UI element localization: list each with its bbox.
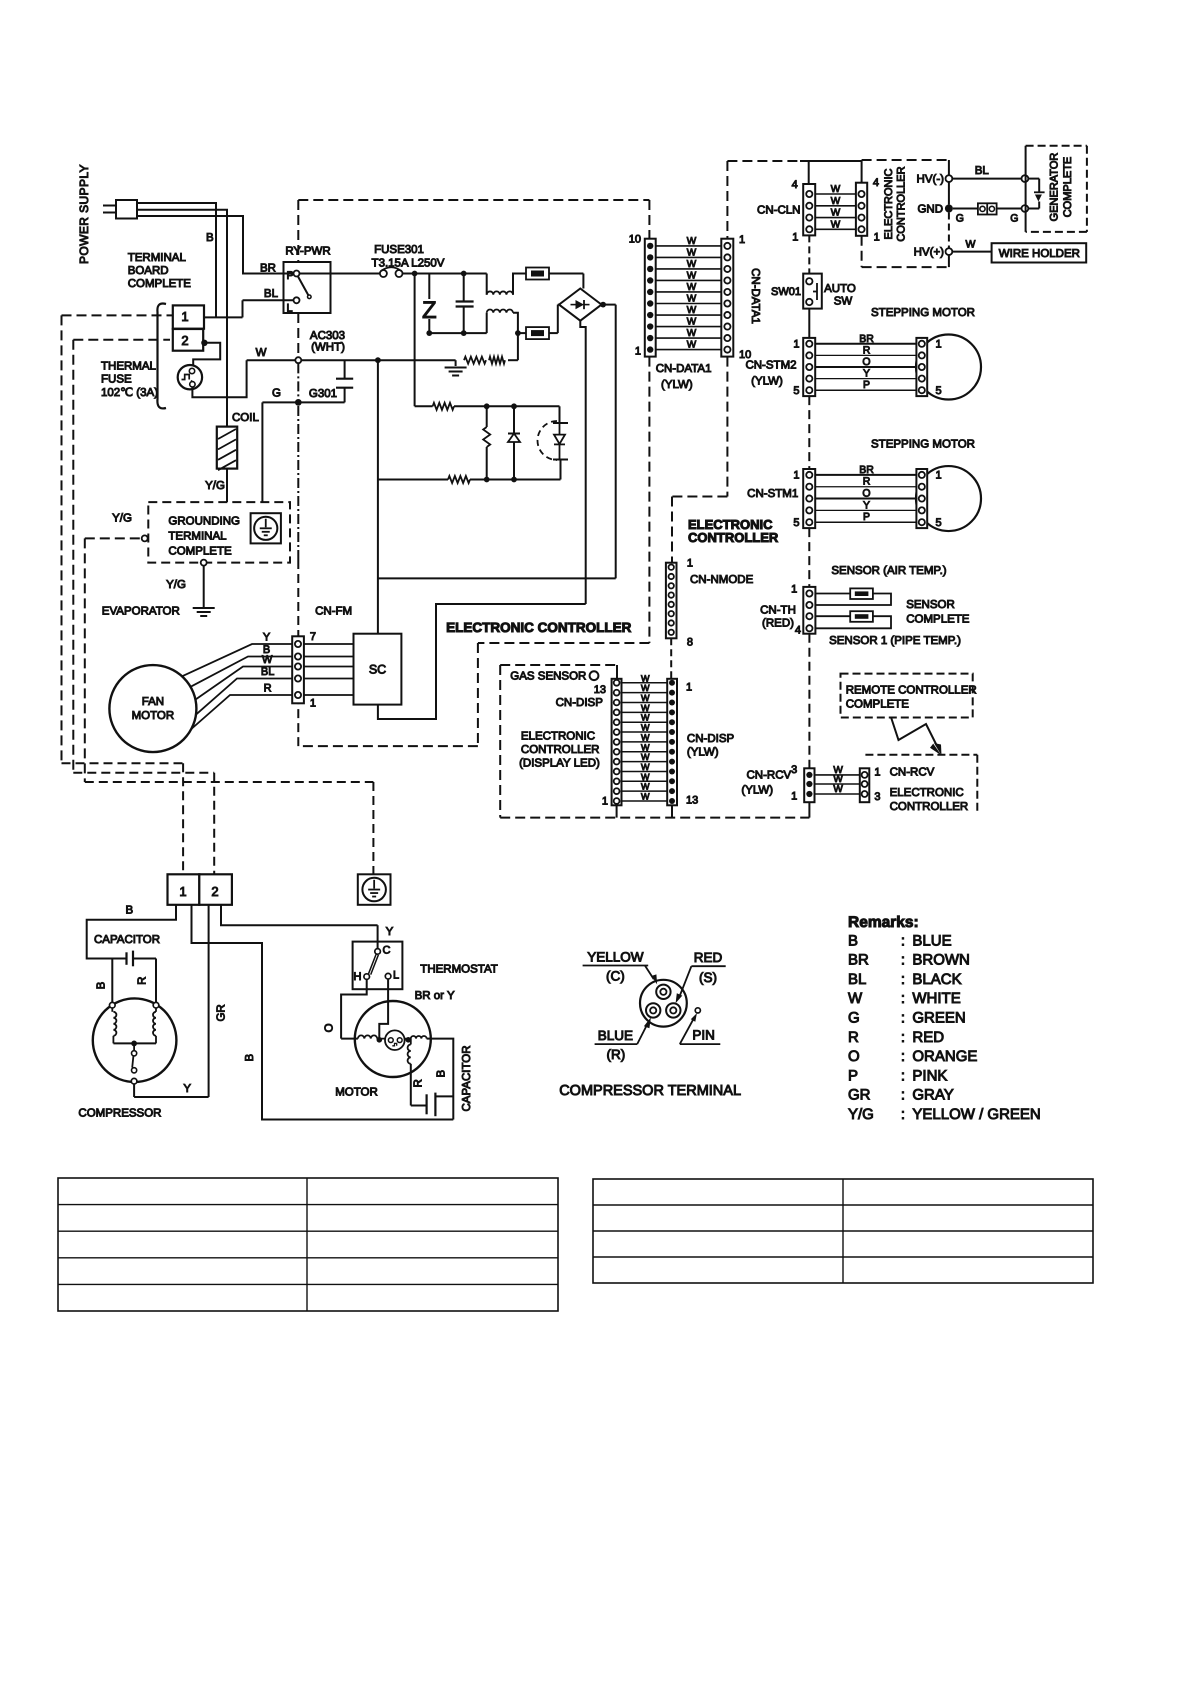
svg-text:O: O: [848, 1048, 860, 1065]
svg-text::: :: [901, 952, 905, 969]
svg-text:C: C: [383, 944, 391, 956]
svg-text:W: W: [831, 196, 841, 207]
svg-text:HV(+): HV(+): [914, 247, 945, 259]
svg-text::: :: [901, 1087, 905, 1104]
svg-text:ELECTRONIC: ELECTRONIC: [521, 731, 595, 743]
svg-text:(YLW): (YLW): [661, 379, 693, 391]
svg-text:STEPPING MOTOR: STEPPING MOTOR: [871, 307, 975, 319]
svg-text:W: W: [641, 683, 650, 693]
svg-text:R: R: [137, 977, 149, 985]
svg-text:(WHT): (WHT): [311, 342, 345, 354]
svg-text:B: B: [96, 981, 108, 989]
svg-text:(S): (S): [699, 970, 717, 985]
svg-text:P: P: [863, 511, 870, 523]
svg-text:BROWN: BROWN: [912, 952, 970, 969]
svg-text:W: W: [831, 219, 841, 230]
svg-text:B: B: [244, 1053, 256, 1061]
svg-text::: :: [901, 1029, 905, 1046]
svg-text:(YLW): (YLW): [751, 376, 783, 388]
svg-text:AUTO: AUTO: [824, 283, 856, 295]
svg-text:GND: GND: [917, 204, 943, 216]
svg-text:Z: Z: [422, 297, 437, 324]
svg-text:W: W: [641, 732, 650, 742]
svg-text:MOTOR: MOTOR: [132, 710, 175, 722]
svg-text:COMPLETE: COMPLETE: [906, 614, 970, 626]
svg-text:CONTROLLER: CONTROLLER: [521, 744, 600, 756]
svg-text:13: 13: [686, 795, 698, 807]
svg-text:1: 1: [602, 796, 608, 808]
svg-text:BL: BL: [264, 288, 279, 300]
svg-text:(RED): (RED): [762, 618, 794, 630]
svg-text:BR: BR: [859, 333, 874, 345]
svg-text:W: W: [966, 239, 976, 251]
svg-text:BR: BR: [859, 464, 874, 476]
svg-text:W: W: [641, 762, 650, 772]
svg-text:1: 1: [791, 584, 797, 596]
svg-text:Y: Y: [863, 499, 870, 511]
svg-text:FUSE: FUSE: [101, 374, 132, 386]
svg-text:FUSE301: FUSE301: [374, 244, 424, 256]
svg-text:STEPPING MOTOR: STEPPING MOTOR: [871, 439, 975, 451]
svg-text:W: W: [687, 282, 697, 293]
svg-text:PIN: PIN: [692, 1027, 715, 1042]
svg-text:1: 1: [686, 682, 692, 694]
svg-text::: :: [901, 990, 905, 1007]
svg-text:G: G: [272, 388, 281, 400]
svg-text:W: W: [687, 259, 697, 270]
svg-text:1: 1: [936, 338, 942, 350]
svg-text:PINK: PINK: [912, 1067, 947, 1084]
svg-text:2: 2: [181, 333, 188, 348]
svg-text:THERMAL: THERMAL: [101, 361, 157, 373]
svg-text:W: W: [641, 752, 650, 762]
svg-text:1: 1: [874, 766, 880, 778]
svg-text:COMPLETE: COMPLETE: [846, 698, 910, 710]
svg-text:1: 1: [874, 231, 880, 243]
svg-text:CN-TH: CN-TH: [760, 605, 796, 617]
svg-text:BLACK: BLACK: [912, 971, 961, 988]
svg-text:COMPLETE: COMPLETE: [1062, 157, 1074, 218]
svg-text:SENSOR: SENSOR: [906, 599, 955, 611]
svg-text:CONTROLLER: CONTROLLER: [896, 166, 908, 241]
svg-text:RED: RED: [694, 950, 723, 965]
svg-text:B: B: [436, 1069, 448, 1077]
svg-text:4: 4: [792, 179, 798, 191]
svg-text:W: W: [687, 305, 697, 316]
svg-text:W: W: [641, 792, 650, 802]
svg-text:TERMINAL: TERMINAL: [128, 252, 187, 264]
svg-text:R: R: [863, 476, 871, 488]
svg-text:4: 4: [873, 177, 879, 189]
svg-text:Y: Y: [863, 368, 870, 380]
svg-text:G: G: [848, 1010, 860, 1027]
svg-text:B: B: [206, 232, 214, 244]
svg-text:G301: G301: [309, 388, 337, 400]
svg-text:Y/G: Y/G: [205, 480, 225, 492]
svg-text:(YLW): (YLW): [741, 784, 773, 796]
svg-text:L: L: [393, 970, 399, 982]
svg-text:W: W: [641, 723, 650, 733]
svg-text:CN-FM: CN-FM: [315, 605, 352, 617]
svg-text:B: B: [848, 932, 858, 949]
svg-text:BLUE: BLUE: [598, 1028, 633, 1043]
svg-text:(R): (R): [607, 1047, 626, 1062]
svg-text:W: W: [687, 270, 697, 281]
svg-text:R: R: [863, 344, 871, 356]
svg-text:Y/G: Y/G: [112, 513, 132, 525]
svg-text:P: P: [287, 270, 294, 282]
svg-text:BR: BR: [848, 952, 869, 969]
svg-text:7: 7: [310, 631, 316, 643]
svg-text:BOARD: BOARD: [128, 265, 169, 277]
svg-text:1: 1: [739, 234, 745, 246]
svg-text:5: 5: [793, 385, 799, 397]
svg-text:GRAY: GRAY: [912, 1087, 953, 1104]
svg-text:COMPRESSOR TERMINAL: COMPRESSOR TERMINAL: [559, 1083, 741, 1099]
svg-text:BR: BR: [260, 263, 276, 275]
svg-text:Y/G: Y/G: [848, 1106, 874, 1123]
svg-text:Remarks:: Remarks:: [848, 914, 919, 931]
svg-text:102℃ (3A): 102℃ (3A): [101, 387, 158, 399]
svg-text:W: W: [831, 184, 841, 195]
svg-text:5: 5: [793, 517, 799, 529]
svg-text:13: 13: [594, 684, 606, 696]
svg-text:THERMOSTAT: THERMOSTAT: [420, 964, 498, 976]
svg-text:W: W: [641, 673, 650, 683]
svg-text:SC: SC: [369, 663, 386, 677]
svg-text:8: 8: [687, 637, 693, 649]
svg-text:1: 1: [793, 338, 799, 350]
svg-text:GR: GR: [216, 1004, 228, 1021]
svg-text:CN-DATA1: CN-DATA1: [749, 268, 761, 324]
svg-text:COMPRESSOR: COMPRESSOR: [78, 1107, 161, 1119]
svg-text:MOTOR: MOTOR: [335, 1087, 378, 1099]
svg-text:Y/G: Y/G: [166, 579, 186, 591]
svg-text:W: W: [641, 693, 650, 703]
svg-text:SW: SW: [834, 296, 853, 308]
svg-text:1: 1: [791, 791, 797, 803]
svg-text:CN-DISP: CN-DISP: [687, 733, 735, 745]
svg-text:CAPACITOR: CAPACITOR: [94, 934, 160, 946]
svg-text:W: W: [687, 236, 697, 247]
svg-text:ORANGE: ORANGE: [912, 1048, 977, 1065]
svg-text:R: R: [848, 1029, 859, 1046]
svg-text:CONTROLLER: CONTROLLER: [890, 801, 969, 813]
svg-text:B: B: [125, 905, 133, 917]
svg-text:G: G: [1010, 213, 1018, 225]
svg-text:R: R: [412, 1079, 424, 1087]
svg-text:ELECTRONIC: ELECTRONIC: [883, 168, 895, 239]
svg-text:GR: GR: [848, 1087, 871, 1104]
svg-text::: :: [901, 1106, 905, 1123]
svg-text:P: P: [863, 379, 870, 391]
svg-text::: :: [901, 1067, 905, 1084]
svg-text:W: W: [641, 782, 650, 792]
svg-text:RY-PWR: RY-PWR: [285, 246, 330, 258]
svg-text:COIL: COIL: [232, 412, 259, 424]
svg-text:SENSOR (AIR TEMP.): SENSOR (AIR TEMP.): [831, 565, 946, 577]
svg-text:POWER SUPPLY: POWER SUPPLY: [77, 164, 91, 264]
svg-text:1: 1: [635, 346, 641, 358]
svg-text:P: P: [848, 1067, 858, 1084]
svg-text:CN-DATA1: CN-DATA1: [656, 363, 712, 375]
svg-text:1: 1: [310, 698, 316, 710]
svg-text:SW01: SW01: [771, 286, 801, 298]
svg-text:5: 5: [936, 385, 942, 397]
svg-text:R: R: [264, 683, 272, 695]
svg-text::: :: [901, 1048, 905, 1065]
svg-text:ELECTRONIC CONTROLLER: ELECTRONIC CONTROLLER: [446, 620, 631, 635]
svg-text:CN-NMODE: CN-NMODE: [690, 574, 754, 586]
svg-text:Y: Y: [263, 632, 271, 644]
svg-text:W: W: [687, 247, 697, 258]
svg-text:W: W: [833, 784, 843, 795]
svg-text:O: O: [324, 1023, 336, 1032]
svg-text:W: W: [641, 713, 650, 723]
svg-text::: :: [901, 1010, 905, 1027]
svg-text:CONTROLLER: CONTROLLER: [688, 530, 779, 545]
svg-text:1: 1: [793, 470, 799, 482]
svg-text:FAN: FAN: [142, 696, 164, 708]
svg-text:10: 10: [629, 234, 641, 246]
svg-text:1: 1: [179, 884, 186, 899]
svg-text:(YLW): (YLW): [687, 747, 719, 759]
svg-text:BL: BL: [975, 165, 990, 177]
svg-text::: :: [901, 932, 905, 949]
svg-text:O: O: [862, 356, 870, 368]
svg-text:BR or Y: BR or Y: [415, 990, 455, 1002]
svg-text:CN-RCV: CN-RCV: [746, 769, 791, 781]
svg-text:H: H: [354, 971, 362, 983]
svg-text:GROUNDING: GROUNDING: [168, 516, 240, 528]
svg-text:L: L: [287, 303, 293, 315]
svg-text:W: W: [641, 742, 650, 752]
svg-text:T3.15A L250V: T3.15A L250V: [372, 258, 445, 270]
svg-text:AC303: AC303: [310, 330, 345, 342]
svg-text:1: 1: [792, 232, 798, 244]
svg-text:WHITE: WHITE: [912, 990, 960, 1007]
svg-text:TERMINAL: TERMINAL: [168, 531, 227, 543]
svg-text:CN-STM2: CN-STM2: [745, 360, 796, 372]
svg-text:3: 3: [791, 764, 797, 776]
svg-text:1: 1: [687, 558, 693, 570]
svg-text:G: G: [956, 213, 964, 225]
svg-text:2: 2: [211, 884, 218, 899]
svg-text:CN-CLN: CN-CLN: [757, 205, 800, 217]
svg-text:W: W: [687, 317, 697, 328]
svg-text:1: 1: [181, 309, 188, 324]
svg-text:ELECTRONIC: ELECTRONIC: [890, 787, 964, 799]
svg-text:W: W: [262, 654, 273, 666]
svg-text:W: W: [848, 990, 863, 1007]
svg-text:(C): (C): [606, 968, 625, 983]
svg-text:RED: RED: [912, 1029, 944, 1046]
svg-text:REMOTE CONTROLLER: REMOTE CONTROLLER: [846, 685, 977, 697]
svg-text:Y: Y: [183, 1083, 191, 1095]
svg-text:WIRE HOLDER: WIRE HOLDER: [999, 248, 1080, 260]
svg-text:W: W: [687, 294, 697, 305]
svg-text:W: W: [687, 328, 697, 339]
svg-text:COMPLETE: COMPLETE: [128, 278, 192, 290]
svg-text:BLUE: BLUE: [912, 932, 951, 949]
svg-text:BL: BL: [848, 971, 866, 988]
svg-text:4: 4: [795, 625, 801, 637]
svg-text:Y: Y: [386, 926, 394, 938]
svg-text:(DISPLAY LED): (DISPLAY LED): [519, 758, 600, 770]
svg-text:EVAPORATOR: EVAPORATOR: [102, 606, 180, 618]
svg-text:GENERATOR: GENERATOR: [1049, 153, 1061, 222]
svg-text:HV(-): HV(-): [917, 174, 945, 186]
svg-text:W: W: [831, 208, 841, 219]
svg-text:YELLOW / GREEN: YELLOW / GREEN: [912, 1106, 1040, 1123]
svg-text:CN-DISP: CN-DISP: [556, 697, 604, 709]
svg-text:COMPLETE: COMPLETE: [168, 546, 232, 558]
svg-text:GAS SENSOR: GAS SENSOR: [510, 671, 586, 683]
svg-text:CAPACITOR: CAPACITOR: [461, 1045, 473, 1111]
svg-text:CN-STM1: CN-STM1: [747, 488, 798, 500]
svg-text:BL: BL: [261, 666, 274, 678]
svg-text:CN-RCV: CN-RCV: [890, 766, 935, 778]
svg-text:W: W: [687, 340, 697, 351]
svg-text:W: W: [641, 772, 650, 782]
svg-text:O: O: [862, 488, 870, 500]
svg-text:W: W: [256, 347, 267, 359]
svg-text:5: 5: [936, 517, 942, 529]
svg-text:W: W: [641, 703, 650, 713]
svg-text:3: 3: [874, 791, 880, 803]
svg-text:GREEN: GREEN: [912, 1010, 965, 1027]
svg-text:SENSOR 1 (PIPE TEMP.): SENSOR 1 (PIPE TEMP.): [829, 635, 961, 647]
svg-text:1: 1: [936, 470, 942, 482]
svg-text:YELLOW: YELLOW: [587, 949, 644, 964]
svg-text::: :: [901, 971, 905, 988]
